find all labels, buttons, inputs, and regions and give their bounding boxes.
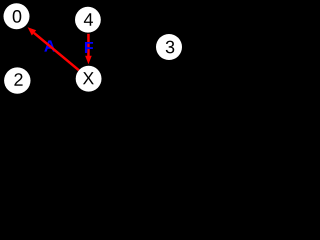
- edge 4 to X red arrow shaft: [87, 34, 90, 56]
- node 2 label(2): [14, 73, 22, 86]
- edge X to 0 red arrowhead: [28, 27, 37, 35]
- node 0 label(0): [13, 10, 22, 23]
- node 2 circle: [4, 67, 30, 93]
- edge 4 to X red arrowhead: [85, 56, 92, 64]
- node 3 label(3): [166, 41, 175, 54]
- node 0 circle: [4, 3, 30, 29]
- edge label F(F): [85, 42, 93, 53]
- node X label(X): [83, 72, 94, 84]
- node 4 label(4): [84, 13, 93, 25]
- edge X to 0 red arrow shaft: [34, 33, 79, 70]
- node 3 circle: [156, 34, 182, 60]
- background: [0, 0, 188, 101]
- node 4 circle: [75, 7, 101, 33]
- edge label A(A): [44, 40, 55, 51]
- node X circle: [76, 66, 102, 92]
